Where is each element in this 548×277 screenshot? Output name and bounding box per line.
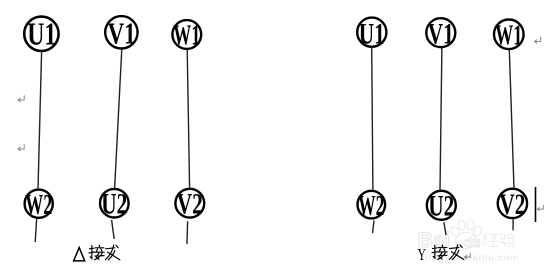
wire tail below U2 left	[112, 220, 115, 239]
watermark char jing	[483, 234, 498, 247]
wire U1 to W2 right	[372, 47, 373, 191]
terminal V1 right	[426, 18, 455, 51]
terminal V2 right	[498, 188, 527, 221]
watermark char yan	[500, 233, 515, 246]
paragraph mark right of W1	[535, 37, 541, 44]
svg-text:V2: V2	[177, 188, 203, 221]
svg-text:du: du	[464, 234, 481, 250]
paragraph mark left lower	[18, 144, 24, 151]
label char jie (connect)	[432, 245, 447, 259]
wire V1 to U2 left	[115, 49, 122, 189]
terminal W2 right	[358, 191, 386, 222]
wire W1 to V2 left	[187, 49, 189, 188]
terminal W1 right	[494, 20, 524, 52]
paragraph mark right of V2	[537, 205, 543, 211]
terminal U1 left	[24, 16, 58, 52]
paragraph mark after Y label	[464, 253, 470, 259]
watermark paw icon	[449, 220, 483, 249]
svg-text:W2: W2	[358, 191, 384, 222]
terminal U2 left	[100, 188, 129, 221]
watermark Baidu Jingyan logo	[418, 220, 520, 264]
svg-text:U2: U2	[101, 188, 127, 221]
label Y connection	[418, 245, 464, 264]
svg-text:U1: U1	[359, 18, 385, 51]
label char fa (connection)	[105, 245, 119, 260]
wire V1 to U2 right	[440, 47, 442, 190]
svg-text:V1: V1	[108, 16, 136, 51]
wire tail below W2 left	[35, 218, 37, 242]
wire tail below V2 right	[512, 218, 514, 230]
terminal V1 left	[105, 16, 137, 51]
svg-text:jingyan.baidu.com: jingyan.baidu.com	[424, 253, 519, 264]
svg-text:V1: V1	[428, 18, 454, 51]
svg-text:U2: U2	[428, 190, 454, 223]
wire U1 to W2 left	[38, 51, 42, 189]
wire W1 to V2 right	[509, 49, 514, 188]
svg-text:V2: V2	[499, 188, 525, 221]
svg-text:U1: U1	[27, 16, 56, 52]
label char jie (connect)	[89, 245, 104, 259]
paragraph mark left upper	[18, 95, 24, 102]
label Delta connection	[74, 245, 120, 261]
wire tail below U2 right	[444, 222, 446, 235]
svg-text:W1: W1	[495, 20, 522, 52]
vertical bar right of V2	[535, 187, 537, 222]
svg-text:W2: W2	[25, 189, 52, 221]
svg-text:W1: W1	[173, 20, 200, 52]
terminal V2 left	[175, 188, 204, 221]
label char fa (connection)	[449, 245, 463, 260]
wire tail below W2 right	[373, 220, 374, 233]
terminal W2 left	[25, 189, 53, 221]
svg-text:Y: Y	[418, 245, 427, 264]
terminal W1 left	[172, 20, 201, 52]
wire tail below V2 left	[186, 221, 189, 244]
terminal U2 right	[427, 190, 456, 223]
terminal U1 right	[357, 18, 386, 51]
